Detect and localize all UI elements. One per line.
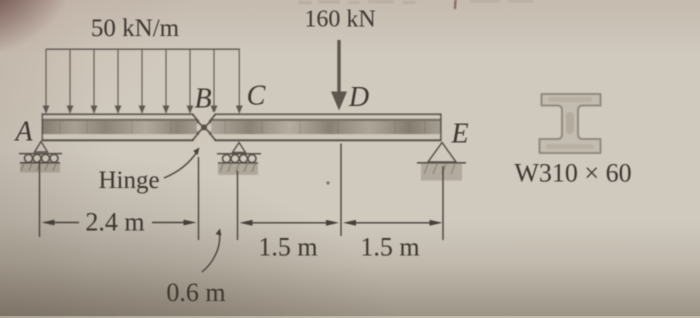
support E pin triangle <box>428 143 456 163</box>
svg-text:W310 × 60: W310 × 60 <box>514 159 631 188</box>
support A roller circles <box>25 154 59 162</box>
svg-text:B: B <box>194 84 211 115</box>
label W310 x 60 <box>514 159 631 188</box>
support C roller triangle <box>233 143 246 153</box>
svg-text:E: E <box>450 119 468 150</box>
0.6 m leader arrow <box>202 229 221 273</box>
label 50 kN/m <box>91 15 180 42</box>
svg-text:2.4 m: 2.4 m <box>85 208 144 237</box>
beam light lower band <box>42 134 441 139</box>
faint ghost text top edge <box>298 0 534 4</box>
dimension 2.4 m line <box>42 220 197 226</box>
node label C <box>247 81 266 112</box>
stray page mark top <box>454 0 457 9</box>
beam right end cap <box>440 113 442 140</box>
svg-text:50 kN/m: 50 kN/m <box>91 15 180 42</box>
label Hinge <box>98 167 159 194</box>
svg-text:1.5 m: 1.5 m <box>360 233 419 262</box>
label 160 kN <box>304 7 375 33</box>
extension line at hinge/B <box>198 157 200 240</box>
svg-text:Hinge: Hinge <box>98 167 159 194</box>
extension line at A <box>39 160 41 237</box>
distributed load top line <box>46 48 240 50</box>
extension line at C support <box>237 171 239 240</box>
support C roller line <box>217 153 261 155</box>
dimension 1.5 m (C to D) line <box>240 220 340 226</box>
point load 160 kN arrow <box>331 40 347 111</box>
svg-text:160 kN: 160 kN <box>304 7 375 33</box>
svg-text:0.6 m: 0.6 m <box>166 278 225 307</box>
hinge wedge cutouts <box>192 112 216 143</box>
beam grain streaks <box>60 121 425 134</box>
beam dark inner edge <box>42 119 441 121</box>
hinge pin circle <box>197 120 212 135</box>
support A ground hatch <box>20 163 60 173</box>
dimension 1.5 m (C to D) label <box>258 233 317 262</box>
dimension 1.5 m (D to E) line <box>343 220 443 226</box>
label 0.6 m <box>166 278 225 307</box>
beam left end cap <box>42 113 44 140</box>
node label B <box>194 84 211 115</box>
svg-text:C: C <box>247 81 266 112</box>
beam mottled web band <box>42 121 441 134</box>
hinge leader arrow <box>164 148 200 179</box>
dimension 1.5 m (D to E) label <box>360 233 419 262</box>
extension line at E <box>442 166 444 240</box>
node label D <box>348 82 369 113</box>
svg-text:D: D <box>348 82 369 113</box>
hinge pinch strokes <box>193 114 216 140</box>
svg-text:A: A <box>13 117 33 148</box>
svg-text:1.5 m: 1.5 m <box>258 233 317 262</box>
support C roller circles <box>223 155 257 163</box>
node label A <box>13 117 33 148</box>
support A roller line <box>19 153 62 155</box>
extension line at D <box>340 144 342 237</box>
distributed load arrows (w = 50 kN/m) <box>43 49 243 114</box>
beam top line <box>42 113 441 115</box>
support E ground hatch <box>421 164 462 181</box>
support A roller triangle <box>35 142 48 153</box>
support E base line <box>417 162 466 164</box>
W-section top flange + web + bottom flange outline <box>540 94 601 153</box>
speck <box>326 181 329 184</box>
beam bottom line <box>42 139 441 141</box>
dimension 2.4 m label <box>85 208 144 237</box>
support C ground hatch <box>218 163 258 175</box>
node label E <box>450 119 468 150</box>
